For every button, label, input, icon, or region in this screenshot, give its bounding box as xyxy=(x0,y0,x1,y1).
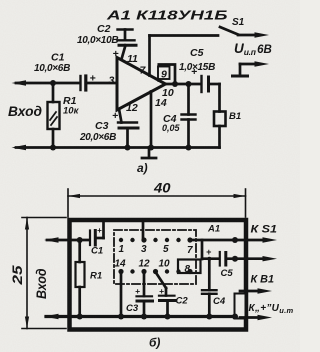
wire pin7 to KS1 xyxy=(190,239,266,242)
node bottom rail arrow xyxy=(12,145,27,150)
dimension 40 xyxy=(68,189,246,217)
node minus terminal xyxy=(240,63,259,66)
IC A1 outline pcb xyxy=(114,230,196,284)
wire output xyxy=(166,83,201,86)
wire gnd rail pcb xyxy=(46,315,236,318)
capacitor C1 pcb xyxy=(89,231,91,246)
node junction R1 top xyxy=(50,80,56,86)
capacitor C3 pcb xyxy=(143,272,146,297)
board outline xyxy=(70,220,247,330)
wire pin14 xyxy=(150,92,153,148)
terminal block xyxy=(235,294,246,319)
capacitor C1 xyxy=(79,76,81,90)
wire pin8 loop box xyxy=(178,260,201,274)
dimension 25 xyxy=(22,218,66,329)
capacitor C2 xyxy=(118,28,133,30)
ground xyxy=(148,148,151,158)
node junction R1 bottom xyxy=(50,145,56,151)
node input top arrow xyxy=(12,80,27,85)
wire gnd out xyxy=(232,314,238,320)
resistor R1 pcb xyxy=(77,237,83,243)
capacitor C4 pcb xyxy=(207,257,211,261)
capacitor C5 pcb xyxy=(202,257,219,260)
wire pin9 loop xyxy=(159,65,175,85)
wire pin3 drop xyxy=(142,222,145,241)
wire pin14 gnd xyxy=(120,272,123,317)
capacitor C4 xyxy=(186,81,192,87)
speaker B1 xyxy=(214,112,226,127)
wire pin7 supply xyxy=(148,36,151,76)
wire bottom rail xyxy=(16,146,220,149)
capacitor C2 pcb xyxy=(156,272,167,288)
wire +U out xyxy=(240,290,261,293)
op-amp U A1 triangle xyxy=(117,58,166,111)
wire input top xyxy=(16,82,79,85)
switch S1 xyxy=(220,27,238,35)
IC pins bottom row xyxy=(118,269,192,274)
resistor R1 xyxy=(52,83,55,102)
wire input top pcb xyxy=(47,239,88,242)
wire branch v1 xyxy=(201,240,204,259)
IC pins top row xyxy=(119,237,193,242)
capacitor C3 xyxy=(119,109,122,123)
